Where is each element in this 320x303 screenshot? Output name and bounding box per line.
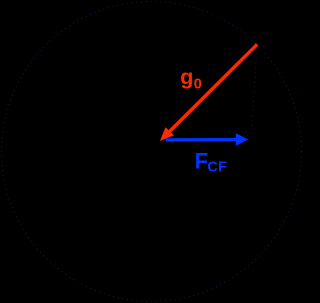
svg-text:CF: CF	[207, 160, 227, 176]
centrifugal force arrowhead	[236, 133, 248, 146]
centrifugal force vector (blue arrow shaft)	[166, 138, 237, 142]
plumb line arrowhead	[245, 131, 253, 140]
svg-text:0: 0	[194, 76, 202, 92]
svg-text:g: g	[180, 65, 193, 89]
svg-text:F: F	[195, 148, 208, 173]
gravity vector g0 arrowhead	[160, 127, 174, 141]
plumb line: dashed vertical from surface point	[252, 48, 257, 127]
gravity vector g0 (red arrow shaft)	[170, 44, 258, 131]
